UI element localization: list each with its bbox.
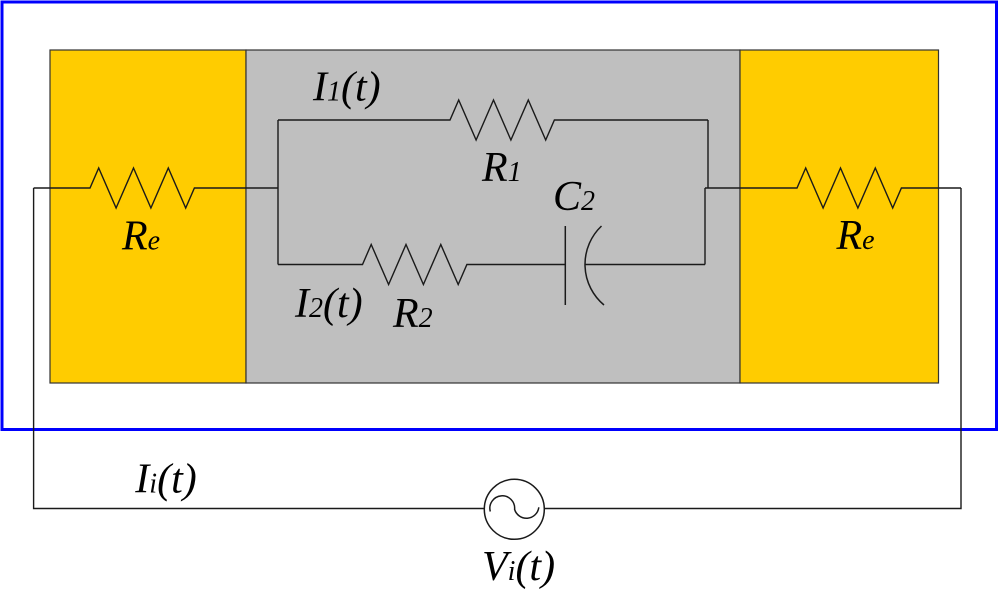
svg-text:I1(t): I1(t) [312,65,381,111]
svg-text:Vi(t): Vi(t) [482,544,555,589]
wire: parallel branch left vertical [277,120,279,265]
wire: branch right vertical (bottom) [704,188,706,265]
resistor R1 on top branch with leads [278,100,708,140]
wire: capacitor to right vertical [585,264,705,266]
capacitor C2 curved plate [585,226,604,305]
yellow electrode block right [740,50,939,383]
wire: middle right (branch to Re right) [705,168,961,208]
wire: right outer loop [545,188,962,509]
wire: left outer loop [34,188,484,509]
svg-text:Ii(t): Ii(t) [134,456,196,502]
svg-text:I2(t): I2(t) [294,281,363,327]
capacitor C2 left plate [564,226,566,305]
AC source sine wave [490,496,539,518]
wire: branch right vertical (top) [707,120,709,188]
blue outer border [2,2,997,430]
gray dielectric block center [246,50,740,383]
resistor R2 on bottom branch with lead [278,245,565,285]
resistor Re (left) with leads [34,168,278,208]
yellow electrode block left [50,50,246,383]
AC source Vi circle [484,479,544,539]
